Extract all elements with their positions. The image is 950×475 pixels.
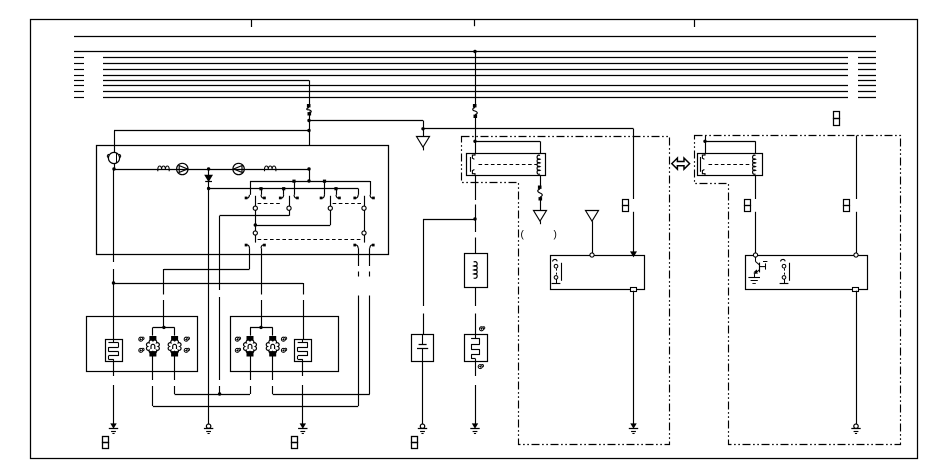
mechanical link G1-G2 — [258, 203, 282, 205]
wire: G2 return line x219.6 seg1 — [219, 216, 221, 290]
relay box enclosure — [97, 146, 389, 255]
wire: x475 coilbox to meander seg2 — [475, 314, 477, 335]
rail1 stub x324.5 — [324, 181, 326, 195]
wire: middle coil down — [540, 176, 542, 186]
relay contact group G2 arm — [289, 196, 291, 206]
right ECU switch glyph — [781, 259, 786, 261]
right relay contact arm bar — [700, 157, 702, 172]
right ECU terminal circle left — [753, 253, 757, 257]
wire: x633 drop to connector — [633, 129, 635, 199]
relay contact group G2 right hook — [294, 195, 297, 198]
left bulb 1 — [149, 336, 156, 341]
node above diode — [207, 167, 210, 170]
relay contact group G4 pivot circle — [362, 206, 366, 210]
node at fuse tap — [112, 167, 115, 170]
wire: x475 drop to relay — [475, 118, 477, 153]
headlight control relay (middle) — [467, 154, 546, 176]
headlight control relay (right) — [698, 154, 763, 176]
relay coil circle with right arrow — [177, 163, 188, 174]
relay contact group G2 pivot circle — [287, 206, 291, 210]
relay contact group G1 pivot circle — [253, 206, 257, 210]
wire: main feed drop from bus 7 at x309 — [309, 80, 311, 104]
G6 arm — [364, 235, 366, 243]
wire: G6 right leg seg2 — [369, 272, 371, 277]
noise capacitor box — [412, 335, 434, 362]
G6 right hook — [370, 245, 373, 248]
bus wire 8 right stub — [858, 85, 876, 87]
bus wire 4 left stub — [74, 63, 84, 65]
rail1 end stub left — [250, 181, 252, 195]
wire: coil top drop x540 — [540, 141, 542, 153]
body connector below x113.5 ground — [103, 437, 109, 443]
wire: left bulb1 top — [152, 327, 154, 335]
body connector below x422.5 ground — [412, 437, 418, 443]
bus wire 9 main run — [103, 91, 848, 93]
node junction at 423,128.8 — [421, 127, 424, 130]
bus wire 9 left stub — [74, 91, 84, 93]
wire: x475 meander down — [475, 361, 477, 376]
dash-dot boundary right unit — [695, 136, 901, 445]
wire: fuse feed run left at y130.5 — [114, 130, 309, 132]
relay contact group G1 right hook — [261, 195, 264, 198]
wire: fuse to main rail — [114, 164, 116, 169]
bus wire 4 right stub — [858, 63, 876, 65]
wire: branch to right meander y283 — [114, 283, 304, 285]
wire: fuse line x113.5 in box — [113, 169, 115, 255]
headlight ECU (right) — [746, 256, 868, 290]
wire: G2 return line seg3 — [219, 386, 221, 394]
right bulb 2 — [269, 336, 276, 341]
rail2 stub x336 — [336, 189, 338, 195]
circuit breaker CB2 — [265, 166, 276, 171]
right headlight unit box — [231, 317, 339, 372]
x475 resistor box — [465, 335, 488, 362]
wire: G6 right leg seg3 — [369, 296, 371, 395]
wire: right meander drop seg2 — [303, 300, 305, 339]
wire: relay coil feed y141.3 — [475, 141, 540, 143]
rail2 stub x283.7 — [283, 189, 285, 195]
wire: right bulb2 leg resumes — [272, 386, 274, 394]
right HID discharge bulb housing — [295, 340, 312, 362]
left bulb 2 — [171, 336, 178, 341]
relay contact group G4 right hook — [370, 195, 373, 198]
node right bulb tee — [259, 326, 262, 329]
inline connector on x633 wire — [623, 200, 629, 206]
wire: G3 tie across y225 — [255, 225, 330, 227]
ground at x302.8 — [301, 424, 305, 428]
bus wire 3 left stub — [74, 57, 84, 59]
bus wire 8 main run — [103, 85, 848, 87]
wire: x856 to ECU — [856, 212, 858, 253]
icon beside left bulb2 upper — [184, 337, 188, 341]
wire: right meander leg resumes — [302, 385, 304, 424]
fusible link circle — [108, 152, 119, 163]
right ECU output transistor — [755, 257, 757, 261]
wire: right meander drop seg1 — [303, 283, 305, 295]
relay contact group G3 arm — [330, 196, 332, 206]
wire: right bulb2 top — [272, 327, 274, 335]
wire: net2 y394 — [273, 394, 370, 396]
contact rail 1 y181 — [250, 181, 370, 183]
wire: right bulb bracket — [250, 327, 273, 329]
wire: branch right from main feed — [309, 120, 423, 122]
wire: right coil top drop — [755, 141, 757, 153]
node main feed on y169 — [307, 167, 310, 170]
connector joint below middle coil — [538, 186, 542, 189]
wire: G2 pivot down — [289, 210, 291, 216]
bus wire 2 — [74, 51, 876, 53]
icon beside left bulb1 lower — [139, 348, 143, 352]
rail2 stub x261 — [261, 189, 263, 195]
svg-text:): ) — [554, 230, 557, 241]
right ECU transistor ground — [754, 274, 756, 277]
relay contact group G1 left hook — [247, 195, 250, 198]
icon beside right bulb2 upper — [281, 337, 285, 341]
icon beside left bulb2 lower — [184, 348, 188, 352]
bus wire 7 main run (turns down as relay feed) — [103, 80, 309, 82]
wire: x856 drop from boundary — [856, 136, 858, 200]
wire: jog down at x423 — [423, 121, 425, 129]
G6 left hook — [356, 245, 359, 248]
wire: capacitor branch y219 — [423, 219, 475, 221]
floating triangle at x592 — [586, 211, 599, 222]
wire: left bulb1 leg resumes — [152, 386, 154, 406]
icon above x475 meander — [480, 327, 484, 331]
contact rail 2 y188.5 — [209, 188, 359, 190]
relay contact group G4 left hook — [356, 195, 359, 198]
relay box feed wire y169 — [114, 169, 309, 171]
icon beside right bulb1 lower — [235, 348, 239, 352]
relay contact group G3 right hook — [336, 195, 339, 198]
wire: G6 left leg seg3 — [358, 296, 360, 407]
right bulb 1 — [247, 336, 254, 341]
middle relay mech link — [479, 164, 537, 166]
relay coil circle with left arrow — [233, 163, 244, 174]
wire: x755.5 to ECU — [755, 212, 757, 253]
wire: left meander leg resumes — [113, 385, 115, 424]
node net1 junction — [218, 392, 221, 395]
wire: G2 tie across y215.8 — [220, 215, 289, 217]
bus wire 5 left stub — [74, 69, 84, 71]
bus wire 10 right stub — [858, 97, 876, 99]
wire: capacitor drop seg1 — [423, 219, 425, 306]
inline connector on x856 wire — [844, 200, 850, 206]
middle relay contact lower hook — [472, 170, 475, 176]
bus wire 7 left stub — [74, 80, 84, 82]
node G1/G3 tie — [254, 223, 257, 226]
ground at x113.5 — [111, 424, 115, 428]
wire: bus2 drop at x475 upper — [475, 52, 477, 105]
node x475 y219 — [473, 217, 476, 220]
headlight ECU (middle) — [551, 256, 645, 290]
wire: diode ground line x208.6 — [208, 189, 210, 425]
rail1 end stub right — [370, 181, 372, 195]
x475 resistor element — [475, 334, 477, 339]
top border tick left — [251, 20, 253, 28]
right relay contact lower hook — [702, 170, 705, 176]
left HID discharge element — [113, 339, 115, 343]
body connector below x302.8 ground — [292, 437, 298, 443]
wire: G3 pivot down — [330, 210, 332, 225]
left HID discharge bulb housing — [106, 340, 123, 362]
wire: G5 right leg seg2 — [261, 300, 263, 327]
wire: right coil feed y141.3 — [705, 141, 756, 143]
G5 right hook — [261, 245, 264, 248]
middle relay contact upper hook — [472, 153, 475, 159]
wire: run left y269 — [164, 269, 250, 271]
bus wire 1 — [74, 36, 876, 38]
connector joint on main feed — [307, 104, 311, 107]
wire: G2 return line seg2 — [219, 297, 221, 380]
wire: capacitor drop seg2 — [423, 314, 425, 335]
ground at x633.5 — [631, 424, 635, 428]
wire: left bulb2 leg resumes — [174, 386, 176, 394]
wire: G6 right leg seg1 — [369, 248, 371, 266]
bus wire 4 main run — [103, 63, 848, 65]
relay lower contact group G5 pivot circle — [253, 231, 257, 235]
relay lower contact group G6 pivot circle — [362, 231, 366, 235]
middle ECU bottom terminal — [631, 288, 637, 292]
wire: left bulb bracket — [153, 327, 175, 329]
wire: x475 below relay seg2 — [475, 205, 477, 233]
wire: G5 left leg — [249, 248, 251, 269]
wire: left bulb1 bottom leg — [152, 357, 154, 381]
relay contact group G2 left hook — [281, 195, 284, 198]
bus wire 3 right stub — [858, 57, 876, 59]
igniter coil box — [465, 254, 488, 288]
G5 arm — [255, 235, 257, 243]
ground triangle stem at x423 — [423, 129, 425, 137]
ground at x475 — [473, 424, 477, 428]
circuit breaker CB1 — [158, 166, 169, 171]
wire: left bulb2 bottom leg — [174, 357, 176, 381]
node main feed on rail1 — [307, 179, 310, 182]
right relay mech link — [709, 164, 751, 166]
rail1 stub x294 — [294, 181, 296, 195]
dash-dot boundary middle unit — [462, 137, 670, 445]
right ECU bottom terminal — [853, 288, 859, 292]
right HID discharge element — [302, 339, 304, 343]
left headlight unit box — [87, 317, 198, 372]
wire: right ECU to ground — [856, 291, 858, 424]
ground at x422.5 — [420, 424, 424, 428]
node junction at 309,120.5 — [307, 119, 310, 122]
middle relay coil — [537, 155, 540, 174]
bus wire 9 right stub — [858, 91, 876, 93]
wire: fuse line below box seg2 — [113, 269, 115, 339]
inline connector on x755.5 wire — [745, 200, 751, 206]
wire: main feed continues to relay box — [309, 116, 311, 146]
wire: x475 below relay seg3 — [475, 238, 477, 254]
bus wire 5 right stub — [858, 69, 876, 71]
icon beside right bulb2 lower — [281, 348, 285, 352]
bus wire 6 right stub — [858, 75, 876, 77]
wire: right bulb1 bottom leg — [250, 357, 252, 381]
connector above right unit — [834, 112, 840, 119]
wire: net3 y406 — [153, 406, 358, 408]
wire: x475 coilbox to meander seg1 — [475, 288, 477, 307]
wire: right bulb2 bottom leg — [272, 357, 274, 381]
ground at x856 — [854, 424, 858, 428]
rail2 end stub x358.2 — [358, 189, 360, 195]
right ECU terminal circle right — [854, 253, 858, 257]
wire: left bulb2 top — [174, 327, 176, 335]
wire: G1 pivot down — [255, 210, 257, 231]
wire: right bulb1 leg resumes — [250, 386, 252, 394]
bus wire 6 main run — [103, 75, 848, 77]
middle ECU entry arrowhead — [631, 252, 636, 256]
wire: G5 right leg seg1 — [261, 248, 263, 294]
wire: G6 left leg seg1 — [358, 248, 360, 266]
right relay coil — [753, 155, 756, 174]
diode D1 — [208, 169, 210, 175]
node meander branch — [112, 281, 115, 284]
wire: triangle to ECU — [592, 221, 594, 253]
wire: middle ECU to ground — [633, 291, 635, 424]
relay contact group G1 arm — [255, 196, 257, 206]
top border tick right — [694, 20, 696, 28]
chassis ground triangle at x423 — [417, 137, 430, 148]
mechanical link G3-G4 — [333, 203, 362, 205]
wire: left meander bottom — [113, 361, 115, 376]
wire: net1 y394 — [175, 394, 250, 396]
wire: fuse line below box seg1 — [113, 255, 115, 263]
wire: capacitor to ground — [422, 361, 424, 424]
bus wire 5 main run — [103, 69, 848, 71]
wire: G6 left leg seg2 — [358, 272, 360, 277]
bus wire 6 left stub — [74, 75, 84, 77]
node: bus2 tap junction — [473, 50, 476, 53]
wire: right bulb1 top — [250, 327, 252, 335]
connector joint on x475 drop — [473, 104, 477, 107]
wire: x633 drop to ECU — [633, 212, 635, 252]
node left bulb tee — [162, 326, 165, 329]
wire: main feed segment — [309, 169, 311, 181]
bus wire 10 left stub — [74, 97, 84, 99]
right relay contact upper hook — [702, 153, 705, 159]
bus wire 8 left stub — [74, 85, 84, 87]
node diode to rail2 — [207, 187, 210, 190]
wire: right relay feed from boundary — [705, 136, 707, 154]
wire: left bulb feed drop seg2 — [163, 300, 165, 327]
icon beside right bulb1 upper — [235, 337, 239, 341]
igniter coil element — [474, 262, 478, 279]
node junction at 475,141.3 — [473, 140, 476, 143]
ground at x208.6 — [206, 424, 210, 428]
top border tick center — [474, 20, 476, 27]
bus wire 7 right stub — [858, 80, 876, 82]
wire: run right to ECU drop at x633 — [423, 128, 634, 130]
relay contact group G3 left hook — [322, 195, 325, 198]
wire: left bulb feed drop seg1 — [163, 269, 165, 295]
capacitor element — [422, 334, 424, 345]
icon beside left bulb1 upper — [139, 337, 143, 341]
bus wire 10 main run — [103, 97, 848, 99]
mechanical link G5-G6 — [258, 239, 362, 241]
wire: to shield ground — [540, 201, 542, 211]
wire: x475 below relay seg1 — [475, 176, 477, 201]
wire: fuse feed drop at x114 — [114, 131, 116, 153]
bus wire 3 main run — [103, 57, 848, 59]
wire: right coil down — [755, 176, 757, 200]
wire: x475 to ground — [475, 385, 477, 424]
middle relay contact arm bar — [470, 157, 472, 172]
node junction at 309,130.5 — [307, 129, 310, 132]
wire: right meander bottom — [302, 361, 304, 376]
icon below x475 meander — [478, 365, 482, 369]
middle ECU switch glyph — [553, 259, 558, 261]
middle ECU terminal circle — [590, 253, 594, 257]
shield ground triangle at x540 — [534, 211, 547, 222]
node right relay junction — [703, 140, 706, 143]
wire: G4 pivot down to G6 — [364, 210, 366, 231]
relay contact group G3 pivot circle — [328, 206, 332, 210]
relay contact group G4 arm — [364, 196, 366, 206]
page link double arrow — [672, 158, 690, 169]
G5 left hook — [247, 245, 250, 248]
